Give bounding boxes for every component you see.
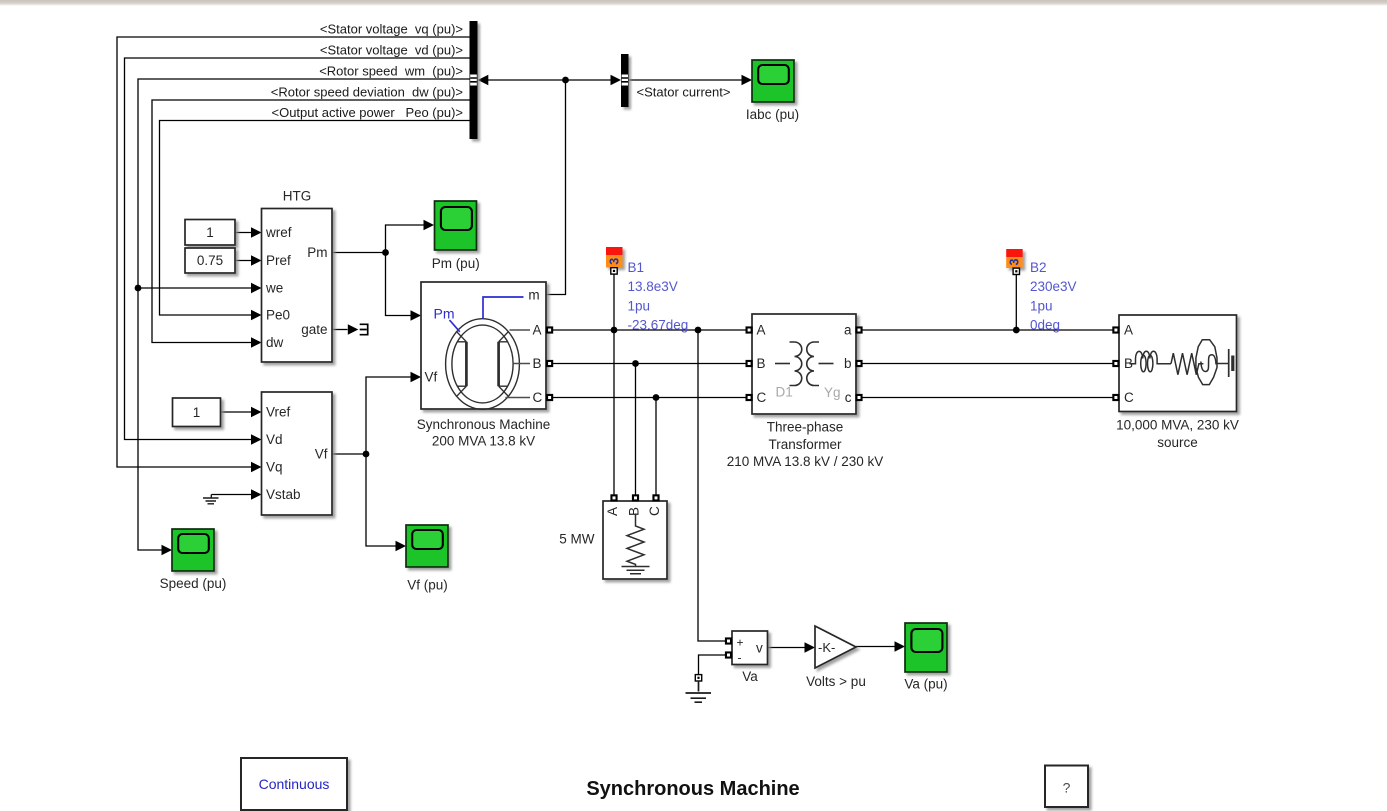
svg-text:a: a <box>844 323 852 338</box>
junction node Pm <box>382 249 389 256</box>
svg-text:c: c <box>845 390 852 405</box>
svg-text:210 MVA 13.8 kV / 230 kV: 210 MVA 13.8 kV / 230 kV <box>727 454 884 469</box>
machine blue m annotation <box>483 297 524 319</box>
svg-text:C: C <box>1124 390 1134 405</box>
transformer winding secondary <box>807 342 834 386</box>
svg-text:B2: B2 <box>1030 260 1047 275</box>
svg-text:1: 1 <box>193 405 201 420</box>
svg-text:0deg: 0deg <box>1030 318 1060 333</box>
arrowhead into Vstab <box>251 489 262 500</box>
svg-text:C: C <box>533 390 543 405</box>
signal label stator current <box>637 85 731 100</box>
signal label vd <box>320 43 463 58</box>
wire bus selector out 2 vd <box>125 58 470 440</box>
ground Vstab <box>203 495 219 504</box>
svg-text:B1: B1 <box>628 260 645 275</box>
svg-text:Pm (pu): Pm (pu) <box>432 256 480 271</box>
wire HTG gate to terminator <box>332 329 348 331</box>
svg-text:<Stator current>: <Stator current> <box>637 85 731 100</box>
svg-text:A: A <box>605 507 620 516</box>
arrowhead into Vd <box>251 434 262 445</box>
arrowhead into dw <box>251 337 262 348</box>
svg-text:10,000 MVA, 230 kV: 10,000 MVA, 230 kV <box>1116 418 1239 433</box>
svg-text:Pref: Pref <box>266 253 291 268</box>
source icon bus bars <box>1229 349 1233 377</box>
wire phase b transformer to source <box>862 363 1112 365</box>
arrowhead into wref <box>251 227 262 238</box>
svg-text:HTG: HTG <box>283 189 312 204</box>
svg-text:A: A <box>757 323 766 338</box>
svg-text:<Stator voltage vq (pu)>: <Stator voltage vq (pu)> <box>320 22 463 37</box>
svg-text:1: 1 <box>206 225 214 240</box>
svg-text:Synchronous Machine: Synchronous Machine <box>417 417 551 432</box>
constant wref 1 <box>185 220 235 246</box>
svg-text:-: - <box>738 651 742 665</box>
wire Va v to gain <box>767 647 805 649</box>
signal label wm <box>319 64 463 79</box>
load block 5 MW <box>603 501 667 579</box>
constant Pref 0.75 <box>185 248 235 273</box>
wire wm to we input <box>138 287 252 289</box>
wire gain to Va scope <box>856 646 895 648</box>
arrowhead into machine Vf <box>411 372 422 383</box>
svg-text:A: A <box>1124 323 1133 338</box>
wire phase C machine to transformer <box>553 397 746 399</box>
help ? block <box>1045 766 1088 808</box>
source icon resistor <box>1171 353 1203 375</box>
junction node phase a / B2 <box>1013 327 1020 334</box>
arrowhead into we <box>251 283 262 294</box>
signal label Peo <box>272 105 464 120</box>
svg-text:Pm: Pm <box>307 245 327 260</box>
machine blue Pm annotation <box>434 306 460 332</box>
wire Pm to scope <box>386 225 425 253</box>
arrowhead into Pm scope <box>424 220 435 231</box>
scope Va (pu) <box>905 623 947 672</box>
svg-text:Yg: Yg <box>824 385 841 400</box>
load resistor icon <box>622 514 650 574</box>
svg-text:Vf: Vf <box>315 447 328 462</box>
wire constant 0.75 to Pref <box>235 260 252 262</box>
svg-text:wref: wref <box>265 225 292 240</box>
wire Pm to machine input <box>386 253 412 316</box>
svg-text:C: C <box>757 390 767 405</box>
wire phase a transformer to source <box>862 329 1112 331</box>
svg-text:13.8e3V: 13.8e3V <box>628 279 678 294</box>
svg-text:200 MVA 13.8 kV: 200 MVA 13.8 kV <box>432 434 535 449</box>
wire bus selector out 3 wm <box>138 79 470 550</box>
wire ground to Vstab <box>211 494 251 496</box>
load rotated port labels <box>605 506 662 516</box>
svg-text:-K-: -K- <box>818 640 835 655</box>
signal label dw <box>271 85 463 100</box>
svg-text:Vref: Vref <box>266 405 291 420</box>
wire phase A to Va plus <box>698 330 725 641</box>
wire bus selector out 5 Peo <box>160 121 470 316</box>
constant Vref 1 <box>173 398 221 427</box>
bus selector 1 <box>470 21 478 139</box>
svg-text:<Rotor speed deviation dw (pu: <Rotor speed deviation dw (pu)> <box>271 85 463 100</box>
powergui Continuous block <box>241 758 347 810</box>
svg-text:+: + <box>737 636 744 650</box>
svg-text:3: 3 <box>607 258 621 265</box>
svg-text:230e3V: 230e3V <box>1030 279 1077 294</box>
machine label <box>417 417 551 449</box>
junction node wm/we <box>135 285 142 292</box>
machine port label m <box>528 288 539 303</box>
Va label <box>742 669 758 684</box>
machine port square A <box>546 326 553 333</box>
svg-text:<Rotor speed wm (pu)>: <Rotor speed wm (pu)> <box>319 64 463 79</box>
svg-text:5 MW: 5 MW <box>559 532 595 547</box>
svg-text:<Stator voltage vd (pu)>: <Stator voltage vd (pu)> <box>320 43 463 58</box>
svg-text:Va: Va <box>742 669 758 684</box>
title Synchronous Machine <box>586 778 799 800</box>
svg-text:v: v <box>756 641 763 656</box>
arrowhead into Va scope <box>895 641 906 652</box>
transformer label <box>727 420 884 470</box>
wire Va minus to ground <box>699 655 726 675</box>
svg-text:Synchronous Machine: Synchronous Machine <box>586 778 799 800</box>
svg-text:source: source <box>1157 435 1198 450</box>
svg-text:<Output active power Peo (pu: <Output active power Peo (pu)> <box>272 105 464 120</box>
scope Speed (pu) <box>172 529 214 571</box>
load label 5 MW <box>559 532 595 547</box>
arrowhead into Iabc scope <box>742 75 753 86</box>
bus selector 2 <box>621 54 629 107</box>
arrowhead into Pe0 <box>251 310 262 321</box>
gain Volts > pu <box>815 626 856 668</box>
source label <box>1116 418 1239 451</box>
svg-text:b: b <box>844 356 852 371</box>
junction node phase A / B1 <box>611 327 618 334</box>
svg-text:we: we <box>265 281 283 296</box>
source icon inductor <box>1130 351 1171 372</box>
wire Vf to machine input <box>366 377 411 454</box>
svg-text:Vf: Vf <box>425 370 438 385</box>
svg-text:1pu: 1pu <box>628 298 651 313</box>
arrowhead gate terminator <box>348 324 359 335</box>
transformer winding primary <box>775 342 802 386</box>
svg-text:dw: dw <box>266 335 284 350</box>
HTG block <box>262 209 333 363</box>
wire B1 measurement drop and load phase A tap <box>613 274 615 495</box>
Va measurement block <box>732 631 768 665</box>
svg-text:Iabc (pu): Iabc (pu) <box>746 107 799 122</box>
B1 port square <box>611 268 617 274</box>
wire bus selector out 4 dw <box>152 100 470 343</box>
wire load phase B tap <box>635 364 637 495</box>
svg-text:Transformer: Transformer <box>768 437 842 452</box>
wire phase B machine to transformer <box>553 363 746 365</box>
load port squares <box>610 494 659 501</box>
source block <box>1119 315 1237 412</box>
B1 text <box>628 260 689 333</box>
machine port square C <box>546 394 553 401</box>
wire load phase C tap <box>655 398 657 495</box>
Va port squares <box>725 637 732 658</box>
svg-text:B: B <box>757 356 766 371</box>
svg-text:0.75: 0.75 <box>197 253 223 268</box>
svg-text:-23.67deg: -23.67deg <box>628 318 689 333</box>
svg-text:Vd: Vd <box>266 432 283 447</box>
svg-text:B: B <box>533 356 542 371</box>
arrowhead into Speed scope <box>162 545 173 556</box>
svg-text:Vstab: Vstab <box>266 487 301 502</box>
junction node Vf <box>363 451 370 458</box>
scope Iabc (pu) <box>752 60 794 102</box>
svg-text:m: m <box>528 288 539 303</box>
svg-text:Vq: Vq <box>266 460 283 475</box>
source port squares <box>1112 326 1119 401</box>
machine icon ellipses <box>446 319 520 410</box>
wire selector2 to Iabc scope <box>629 79 743 81</box>
svg-text:Continuous: Continuous <box>259 776 330 792</box>
wire bus selector out 1 vq <box>117 37 470 467</box>
svg-text:1pu: 1pu <box>1030 298 1053 313</box>
source icon AC ellipse <box>1196 340 1229 385</box>
svg-text:C: C <box>647 506 662 516</box>
arrowhead into machine Pm <box>411 310 422 321</box>
scope Pm (pu) <box>435 201 477 250</box>
junction node phase B tap <box>632 360 639 367</box>
junction node phase C tap <box>653 394 660 401</box>
svg-text:Pm: Pm <box>434 306 455 322</box>
arrowhead into gain <box>805 642 816 653</box>
svg-text:gate: gate <box>301 322 327 337</box>
arrowhead into Vf scope <box>396 541 407 552</box>
wire excitation Vf output <box>332 453 366 455</box>
wire B2 measurement drop <box>1015 275 1017 330</box>
arrowhead into Vq <box>251 462 262 473</box>
svg-text:D1: D1 <box>776 385 793 400</box>
junction node m-bus <box>562 77 569 84</box>
machine port square B <box>546 360 553 367</box>
transformer port squares right <box>855 326 862 401</box>
excitation system block <box>262 392 333 515</box>
svg-text:B: B <box>627 507 642 516</box>
svg-text:A: A <box>533 323 542 338</box>
machine port leads A B C <box>506 330 531 398</box>
terminator gate <box>360 324 368 334</box>
svg-text:Volts > pu: Volts > pu <box>806 674 866 689</box>
wire phase A machine to transformer <box>553 329 746 331</box>
svg-text:Vf (pu): Vf (pu) <box>407 578 448 593</box>
top window edge band <box>0 0 1387 6</box>
wire bus m to selectors (horizontal y=80) <box>488 79 612 81</box>
synchronous machine block <box>421 282 546 409</box>
machine port label Vf <box>425 370 438 385</box>
signal label vq <box>320 22 463 37</box>
B2 port square <box>1013 268 1019 274</box>
wire HTG Pm output <box>332 252 386 254</box>
arrowhead into bus selector 2 <box>611 75 622 86</box>
machine icon rotor brackets <box>456 331 508 396</box>
three-phase transformer block <box>752 314 856 414</box>
svg-text:3: 3 <box>1007 258 1021 265</box>
transformer port squares left <box>746 326 753 401</box>
transformer Yg label <box>824 385 841 400</box>
arrowhead into Pref <box>251 255 262 266</box>
wire Vf to scope <box>366 454 396 546</box>
B2 bus measurement icon <box>1006 249 1023 268</box>
arrowhead into Vref <box>251 407 262 418</box>
wire constant 1 to wref <box>235 232 252 234</box>
scope Vf (pu) <box>406 525 448 567</box>
wire machine m output up <box>546 80 566 295</box>
wire phase c transformer to source <box>862 397 1112 399</box>
svg-text:Speed (pu): Speed (pu) <box>160 576 227 591</box>
transformer D1 label <box>776 385 793 400</box>
B2 text <box>1030 260 1077 333</box>
junction node phase A / Va <box>695 327 702 334</box>
svg-text:Three-phase: Three-phase <box>767 420 844 435</box>
arrowhead into bus selector 1 <box>478 75 489 86</box>
ground below Va <box>686 675 712 703</box>
svg-text:?: ? <box>1063 780 1071 796</box>
svg-text:Pe0: Pe0 <box>266 308 290 323</box>
B1 bus measurement icon <box>606 247 623 268</box>
wire constant 1 to Vref <box>221 411 252 413</box>
svg-text:Va (pu): Va (pu) <box>904 677 947 692</box>
